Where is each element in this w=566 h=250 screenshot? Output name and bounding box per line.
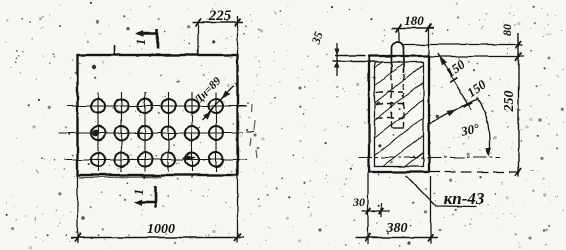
stray tick above plate top edge	[114, 45, 116, 56]
flange lip line lower (inner top extended)	[333, 61, 375, 63]
anchor rod hidden legs (dashed)	[391, 74, 393, 128]
hole column centerline x=192	[191, 92, 193, 172]
top shoulder line to right dim	[404, 44, 524, 46]
hole diameter leader arrowheads	[203, 90, 230, 119]
dimension 380 ticks	[365, 234, 371, 242]
hole at col x=216 row y=133	[209, 126, 223, 140]
channel inner outline	[375, 62, 424, 167]
hole at col x=145 row y=159.5	[138, 153, 152, 167]
anchor rod hidden bottom (dashed)	[392, 127, 404, 129]
dimension 180 line	[392, 27, 434, 29]
anchor rod (pin) outline	[392, 42, 404, 73]
right dim ticks 80 / 250	[516, 41, 522, 49]
dimension 180 ticks	[396, 24, 402, 32]
dimension 225 extension line right	[237, 16, 239, 54]
hole column centerline x=216	[215, 92, 217, 172]
svg-text:кп-43: кп-43	[444, 189, 485, 208]
dimension 225 line	[192, 22, 243, 24]
hole at col x=168.5 row y=106	[162, 99, 176, 113]
box top edge extended right	[429, 56, 524, 58]
dimension 35 arrows	[334, 49, 339, 69]
dimension 225 tick right	[235, 19, 241, 27]
bottom extension to right dim (long dashes)	[429, 171, 523, 173]
diagonal 150 dimension line	[438, 54, 471, 111]
hole at col x=145 row y=106	[138, 99, 152, 113]
hole at col x=168.5 row y=159.5	[162, 153, 176, 167]
hidden hole line row 2	[376, 103, 403, 105]
hole column centerline x=98	[97, 92, 99, 172]
svg-text:30: 30	[352, 195, 365, 209]
hole column centerline x=121.5	[121, 92, 123, 172]
dimension 30 ticks	[366, 208, 371, 214]
hole at col x=192 row y=106	[185, 99, 199, 113]
dimension 1000 line	[71, 237, 244, 239]
dimension 1000 tick right	[235, 234, 241, 242]
flange lip line upper	[335, 55, 365, 57]
30 degree arc	[477, 97, 490, 155]
hole row centerline y=106	[67, 105, 247, 107]
channel outer outline	[369, 56, 429, 172]
dimension 1000 tick left	[75, 234, 81, 242]
hole at col x=98 row y=159.5	[91, 153, 105, 167]
dimension 35 vertical line	[336, 43, 338, 76]
dimension 30 line	[362, 210, 390, 212]
dark smudge in hole row2 col1	[92, 130, 99, 137]
30 degree arc arrow	[485, 148, 491, 157]
section mark 1 bottom : view arrow	[135, 199, 156, 206]
diagonal 150 arrowhead at top	[440, 56, 447, 65]
hole at col x=216 row y=159.5	[209, 153, 223, 167]
plate outline	[78, 55, 238, 175]
hole at col x=98 row y=106	[91, 99, 105, 113]
hidden hole line row 3	[376, 117, 403, 119]
hole at col x=121.5 row y=106	[115, 99, 129, 113]
dimension 380 line	[355, 237, 438, 239]
svg-text:1: 1	[133, 39, 148, 46]
hole column centerline x=145	[144, 92, 146, 172]
svg-text:1: 1	[131, 189, 146, 196]
hole diameter leader line	[202, 85, 234, 120]
svg-text:1000: 1000	[147, 222, 175, 237]
svg-text:80: 80	[500, 24, 514, 36]
hole at col x=216 row y=106	[209, 99, 223, 113]
doubled stroke under plate bottom edge	[79, 176, 162, 179]
dimension 30 extension short	[380, 203, 382, 217]
dimension 380 extension left	[367, 173, 369, 244]
smudge streaks right of plate	[250, 104, 257, 158]
dimension 180 extension right	[428, 29, 430, 55]
hole at col x=192 row y=159.5	[185, 153, 199, 167]
concrete hatching	[375, 62, 424, 167]
section mark 1 top : cutting plane stroke	[156, 29, 159, 50]
hole at col x=192 row y=133	[185, 126, 199, 140]
dimension 225 extension line left	[197, 23, 199, 55]
svg-text:250: 250	[502, 91, 517, 113]
dimension 380 extension right	[430, 176, 432, 244]
section mark 1 top : view arrow	[136, 30, 158, 37]
hole at col x=98 row y=133	[91, 126, 105, 140]
hole row centerline y=133	[59, 132, 243, 134]
dimension 1000 extension line right	[237, 176, 239, 243]
hole at col x=168.5 row y=133	[162, 126, 176, 140]
leader line KP-43	[406, 176, 476, 208]
hole at col x=121.5 row y=159.5	[115, 153, 129, 167]
dimension 225 tick left	[195, 19, 201, 27]
section mark 1 bottom : cutting plane stroke	[154, 186, 157, 208]
svg-text:225: 225	[208, 8, 232, 24]
right vertical dimension line	[518, 33, 520, 177]
hidden hole line row 1	[376, 91, 403, 93]
hole at col x=145 row y=133	[138, 126, 152, 140]
hole at col x=121.5 row y=133	[115, 126, 129, 140]
tick through bottom edge at col5	[191, 174, 193, 178]
svg-text:180: 180	[404, 13, 424, 28]
diagonal 150 tick end	[464, 103, 473, 108]
axis centerline (dash-dot)	[358, 157, 500, 159]
diagonal 150 tick middle	[449, 78, 458, 83]
hole row centerline y=159.5	[64, 159, 247, 161]
dimension 1000 extension line left	[77, 176, 79, 243]
slope reference line with arrow	[429, 98, 479, 123]
small arrow on row 3 centerline	[183, 155, 196, 161]
tick through bottom edge at col3	[143, 174, 146, 179]
dimension 180 extension left	[398, 29, 400, 42]
hole column centerline x=168.5	[168, 92, 170, 172]
hole row centerline y=133 overshoot dash	[247, 131, 255, 133]
